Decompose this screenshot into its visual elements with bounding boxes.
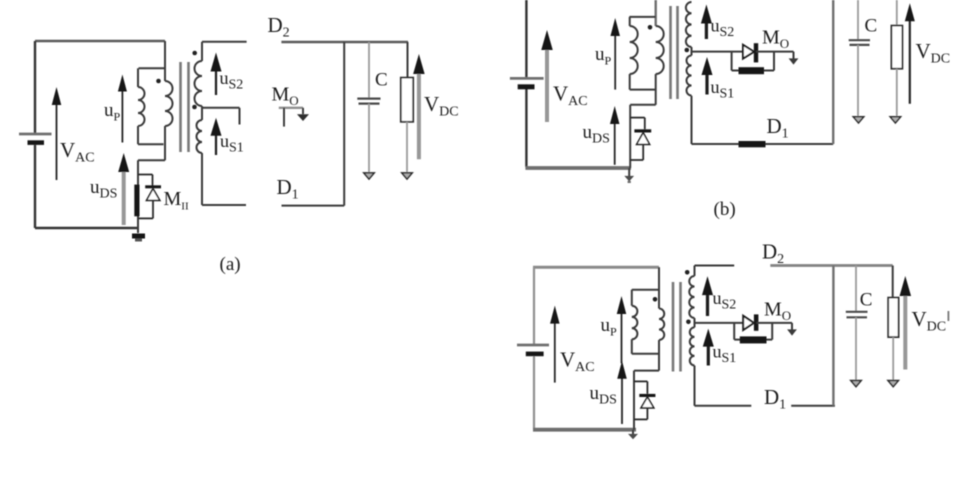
svg-text:(b): (b) (714, 199, 736, 220)
svg-text:C: C (865, 16, 878, 37)
svg-text:(a): (a) (220, 254, 241, 275)
svg-text:C: C (375, 70, 388, 91)
svg-text:C: C (860, 290, 873, 311)
